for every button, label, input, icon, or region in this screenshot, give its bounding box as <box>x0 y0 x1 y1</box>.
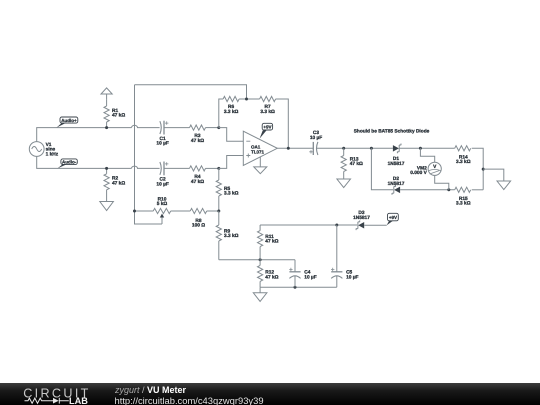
wire plus input stair <box>219 156 244 169</box>
R11 label <box>265 234 278 245</box>
wire V1 top to Audio+ row <box>37 128 132 142</box>
wire VM2 bottom <box>435 175 449 189</box>
diode D1 <box>393 144 401 154</box>
wire R14 to right rail <box>472 148 484 190</box>
svg-text:47 kΩ: 47 kΩ <box>112 113 125 119</box>
D3 label <box>353 210 370 221</box>
capacitor C5 <box>331 268 342 288</box>
VM2 label <box>410 165 427 176</box>
wire R3 to node <box>206 127 219 129</box>
CircuitLab logo <box>0 383 110 405</box>
R10 label <box>157 196 168 207</box>
node top feedback <box>245 98 248 101</box>
capacitor C2 <box>160 162 169 176</box>
resistor R11 <box>258 225 263 260</box>
svg-text:3.3 kΩ: 3.3 kΩ <box>224 109 239 115</box>
C4 label <box>304 270 316 281</box>
wire R10 wiper loop <box>135 211 163 224</box>
svg-text:47 kΩ: 47 kΩ <box>350 161 363 167</box>
node C5 top <box>335 224 338 227</box>
node R13 top <box>342 147 345 150</box>
R3 label <box>191 133 204 144</box>
wire R8 to node <box>207 210 219 212</box>
wire R4 to node <box>206 167 219 169</box>
wire D1 to R14 <box>399 147 455 149</box>
svg-text:LAB: LAB <box>69 396 88 405</box>
svg-text:Audio-: Audio- <box>62 160 77 165</box>
node on Audio+ row at R1 <box>105 126 108 129</box>
svg-text:47 kΩ: 47 kΩ <box>265 274 278 280</box>
wire V1 bottom to Audio- row <box>37 156 132 168</box>
resistor R1 <box>104 100 109 128</box>
potentiometer R10 <box>135 208 191 224</box>
wire top rail <box>135 85 247 99</box>
wire C5 top lead <box>336 225 338 272</box>
resistor R13 <box>341 148 346 179</box>
R4 label <box>191 174 204 185</box>
op-amp OA1 <box>243 131 277 165</box>
svg-text:10 µF: 10 µF <box>304 274 316 280</box>
node VM2 bottom branch <box>447 188 450 191</box>
R15 label <box>456 196 471 207</box>
footer bar <box>0 383 540 405</box>
wire bottom rail <box>260 286 337 288</box>
resistor R14 <box>455 146 471 151</box>
resistor R5 <box>216 168 221 211</box>
flag Audio- <box>58 159 78 169</box>
D2 label <box>388 176 405 187</box>
ground right <box>497 181 511 190</box>
wire D3 to +9V flag <box>364 224 387 226</box>
voltmeter VM2 <box>428 162 441 175</box>
node D2 branch <box>370 147 373 150</box>
svg-text:10 µF: 10 µF <box>310 135 322 141</box>
wire hop over rail on Audio+ row <box>132 125 160 127</box>
svg-text:Should be BAT85 Schottky Diode: Should be BAT85 Schottky Diode <box>354 128 430 134</box>
R12 label <box>265 270 278 281</box>
svg-text:3.3 kΩ: 3.3 kΩ <box>224 233 239 239</box>
wire R9 to mid rail <box>219 259 295 261</box>
diode D3 <box>356 220 364 230</box>
capacitor C1 <box>160 121 169 135</box>
voltage source V1 <box>29 142 44 157</box>
wire op-amp output to C3 <box>277 147 313 149</box>
flag +9V at D3 <box>387 213 399 225</box>
wire C4 top lead <box>294 260 296 272</box>
svg-text:3.3 kΩ: 3.3 kΩ <box>224 191 239 197</box>
node VM2 top branch <box>419 147 422 150</box>
svg-text:47 kΩ: 47 kΩ <box>265 239 278 245</box>
ground below R13 <box>337 179 351 188</box>
node R4 out <box>217 167 220 170</box>
C3 label <box>310 130 322 141</box>
node on Audio- row at R2 <box>105 167 108 170</box>
C2 label <box>156 177 168 188</box>
node R8/R5/R9 <box>217 210 220 213</box>
flag +9V at op-amp <box>260 123 273 138</box>
OA1 label <box>251 145 265 155</box>
wire +9V rail (R11 top / D3) <box>260 224 357 226</box>
wire R15 to right rail <box>472 189 484 191</box>
svg-text:47 kΩ: 47 kΩ <box>191 138 204 144</box>
wire R7 to output column <box>276 99 289 148</box>
capacitor C3 <box>309 142 318 155</box>
wire right rail to ground <box>483 169 504 181</box>
C5 label <box>346 270 358 281</box>
D1 label <box>388 156 405 167</box>
R9 label <box>224 228 239 239</box>
resistor R9 <box>216 211 221 260</box>
resistor R7 <box>260 96 276 101</box>
svg-text:TL071: TL071 <box>251 149 265 154</box>
svg-text:3.3 kΩ: 3.3 kΩ <box>456 201 471 207</box>
wire vertical rail from top rail to R10 <box>134 85 136 211</box>
flag Audio+ <box>57 117 78 128</box>
R5 label <box>224 186 239 197</box>
node C4 bottom <box>294 286 297 289</box>
wire C2 to R4 <box>164 167 190 169</box>
svg-text:3.3 kΩ: 3.3 kΩ <box>260 109 275 115</box>
svg-text:47 kΩ: 47 kΩ <box>191 179 204 185</box>
svg-text:100 Ω: 100 Ω <box>192 223 205 229</box>
wire node to R6 left <box>219 99 223 128</box>
node output/R7 <box>287 147 290 150</box>
ground below R2 <box>100 202 114 211</box>
svg-text:1 kHz: 1 kHz <box>46 151 59 157</box>
R13 label <box>350 156 363 167</box>
wire R6 to R7 <box>239 98 260 100</box>
svg-text:47 kΩ: 47 kΩ <box>112 180 125 186</box>
wire VM2 top <box>420 148 434 162</box>
R7 label <box>260 104 275 115</box>
R14 label <box>456 154 471 165</box>
svg-text:1N5817: 1N5817 <box>388 161 405 167</box>
svg-text:1N5817: 1N5817 <box>388 181 405 187</box>
ground below op-amp <box>254 157 267 174</box>
diode D2 <box>392 185 400 195</box>
resistor R2 <box>104 168 109 201</box>
capacitor C4 <box>289 268 300 288</box>
wire D2 branch down <box>371 148 393 190</box>
svg-text:10 µF: 10 µF <box>156 141 168 147</box>
resistor R12 <box>258 260 263 287</box>
resistor R15 <box>455 187 471 192</box>
svg-text:1N5817: 1N5817 <box>353 215 370 221</box>
R2 label <box>112 176 125 187</box>
node R11/R12 junction <box>259 258 262 261</box>
resistor R8 <box>190 208 207 213</box>
svg-text:+9V: +9V <box>263 125 271 130</box>
svg-text:0.000 V: 0.000 V <box>410 170 427 176</box>
C1 label <box>156 136 168 147</box>
node R10 left <box>133 210 136 213</box>
wire minus input stair <box>219 128 244 142</box>
node R3 out <box>217 126 220 129</box>
svg-text:Audio+: Audio+ <box>61 118 77 123</box>
node right rail mid <box>482 168 485 171</box>
svg-text:10 µF: 10 µF <box>156 182 168 188</box>
wire hop over rail on Audio- row <box>132 166 160 168</box>
resistor R6 <box>223 96 239 101</box>
R8 label <box>192 218 205 229</box>
ground below R12 <box>253 287 267 301</box>
svg-text:5 kΩ: 5 kΩ <box>157 201 168 207</box>
power arrow above R1 <box>101 88 112 100</box>
V1 value label <box>46 142 59 158</box>
svg-text:3.3 kΩ: 3.3 kΩ <box>456 159 471 165</box>
R6 label <box>224 104 239 115</box>
wire D2 to R15 <box>400 189 455 191</box>
resistor R4 <box>190 166 206 171</box>
footer title: zygurt / VU Meter <box>115 385 186 395</box>
wire C1 to R3 <box>164 127 190 129</box>
resistor R3 <box>190 125 206 130</box>
svg-text:10 µF: 10 µF <box>346 274 358 280</box>
footer url <box>115 395 264 405</box>
R1 label <box>112 108 125 119</box>
svg-text:+9V: +9V <box>389 215 397 220</box>
wire C3 to D1 <box>317 147 393 149</box>
